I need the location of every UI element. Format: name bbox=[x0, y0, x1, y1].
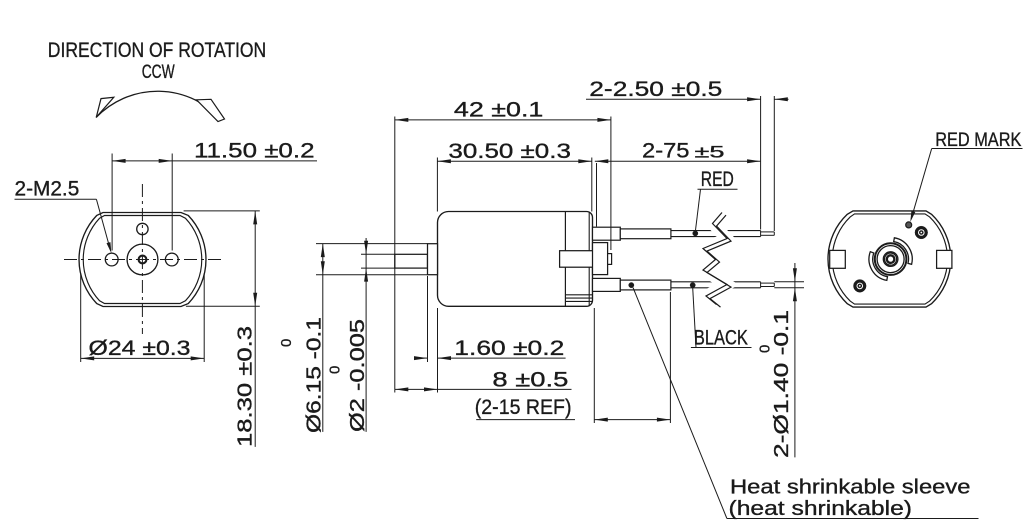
svg-text:Ø24 ±0.3: Ø24 ±0.3 bbox=[89, 337, 191, 360]
svg-text:Ø6.15 -0.1: Ø6.15 -0.1 bbox=[304, 317, 326, 433]
svg-text:18.30 ±0.3: 18.30 ±0.3 bbox=[235, 326, 257, 447]
svg-text:Ø2 -0.005: Ø2 -0.005 bbox=[347, 319, 369, 432]
svg-text:8 ±0.5: 8 ±0.5 bbox=[492, 368, 568, 391]
svg-text:42 ±0.1: 42 ±0.1 bbox=[454, 99, 544, 122]
svg-text:RED: RED bbox=[701, 168, 734, 191]
svg-text:BLACK: BLACK bbox=[694, 326, 748, 349]
svg-text:±5: ±5 bbox=[695, 143, 725, 162]
svg-text:0: 0 bbox=[278, 339, 295, 347]
svg-text:0: 0 bbox=[327, 366, 344, 374]
svg-text:0: 0 bbox=[757, 345, 774, 353]
svg-text:Heat shrinkable sleeve: Heat shrinkable sleeve bbox=[730, 477, 971, 499]
svg-text:(heat shrinkable): (heat shrinkable) bbox=[729, 498, 913, 520]
svg-text:1.60 ±0.2: 1.60 ±0.2 bbox=[454, 337, 564, 360]
svg-text:RED MARK: RED MARK bbox=[935, 130, 1021, 151]
svg-text:2-75: 2-75 bbox=[642, 140, 690, 163]
svg-text:2-Ø1.40 -0.1: 2-Ø1.40 -0.1 bbox=[771, 310, 793, 458]
svg-text:2-2.50 ±0.5: 2-2.50 ±0.5 bbox=[589, 78, 722, 101]
svg-text:2-M2.5: 2-M2.5 bbox=[15, 178, 80, 201]
svg-text:(2-15 REF): (2-15 REF) bbox=[475, 396, 572, 419]
svg-text:30.50 ±0.3: 30.50 ±0.3 bbox=[448, 140, 571, 163]
svg-text:CCW: CCW bbox=[142, 61, 175, 83]
svg-text:11.50 ±0.2: 11.50 ±0.2 bbox=[194, 139, 315, 162]
svg-text:DIRECTION OF ROTATION: DIRECTION OF ROTATION bbox=[48, 39, 266, 62]
